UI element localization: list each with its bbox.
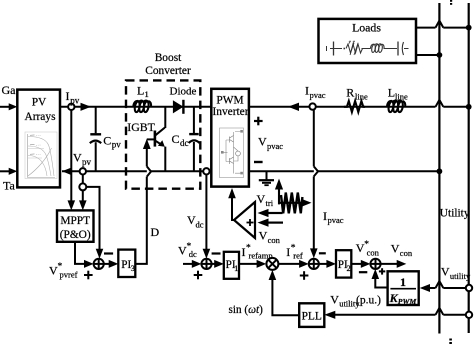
wire Vpv sense line down to MPPT <box>79 190 87 210</box>
svg-text:Utility: Utility <box>440 208 470 220</box>
wire arrow on DC bus <box>81 103 92 111</box>
node I_pv label <box>66 89 80 105</box>
wire S1 to PI3 <box>104 260 119 268</box>
svg-text:2: 2 <box>346 263 350 273</box>
svg-text:3: 3 <box>131 263 135 273</box>
svg-text:V: V <box>391 242 400 256</box>
controller PI3 block <box>118 250 135 277</box>
node Ipvac label top <box>305 84 326 100</box>
boost converter dashed box <box>126 80 200 188</box>
wire S3 to PI2 <box>319 260 336 268</box>
svg-text:ref: ref <box>293 251 303 261</box>
svg-text:Inverter: Inverter <box>212 106 248 118</box>
node S1 minus sign <box>104 252 113 254</box>
wire AC top line after hop <box>443 106 468 108</box>
node S4 plus sign <box>379 268 385 274</box>
node Vdc sensor circle on rail <box>203 168 209 174</box>
Loads inner circuit sketch <box>327 41 409 56</box>
svg-text:R: R <box>346 86 354 100</box>
svg-text:pvac: pvac <box>328 215 344 225</box>
node Vpvac label <box>258 135 283 151</box>
node Boost Converter label <box>145 52 191 77</box>
wire Loads top to bus B <box>416 21 469 28</box>
resistor Rline <box>344 101 365 112</box>
svg-text:I: I <box>66 89 70 103</box>
svg-text:PLL: PLL <box>302 310 322 322</box>
PLL block <box>299 303 324 327</box>
svg-text:1: 1 <box>400 275 406 289</box>
diode D1 <box>173 100 184 114</box>
PWM inverter block <box>211 89 249 187</box>
svg-text:V: V <box>259 229 268 243</box>
node junction dot AC top on bus B <box>466 104 472 110</box>
node S2 plus sign <box>194 271 203 280</box>
svg-text:Converter: Converter <box>145 65 191 77</box>
svg-text:dc: dc <box>189 249 197 259</box>
svg-text:line: line <box>395 91 408 101</box>
wire Vdcref input arrow <box>183 260 201 268</box>
node junction dot Loads bottom on bus A <box>437 52 443 58</box>
wire PI2 to S4 <box>351 260 370 268</box>
node S1 plus sign <box>84 271 93 280</box>
wire multiplier to S3 <box>278 260 308 268</box>
svg-text:L: L <box>137 84 144 98</box>
svg-text:PWM: PWM <box>216 95 243 107</box>
svg-text:V: V <box>330 293 339 307</box>
svg-text:V: V <box>441 265 450 279</box>
MPPT block <box>57 210 94 241</box>
gain block 1/KPWM <box>388 271 419 306</box>
wire Vcon output arrow <box>381 260 407 268</box>
wire Vtri input arrow into comparator <box>258 209 283 217</box>
svg-text:pvref: pvref <box>60 270 78 280</box>
wire Ta input arrow <box>0 168 17 175</box>
controller PI1 block <box>224 252 239 279</box>
wire sin wt into multiplier <box>269 270 300 315</box>
summing junction S1 <box>94 259 104 269</box>
svg-text:tri: tri <box>266 198 274 208</box>
svg-text:(p.u.): (p.u.) <box>356 295 381 307</box>
PWM inverter inner sketch <box>220 128 244 178</box>
node Vpv sensor circle on rail <box>80 168 86 174</box>
svg-text:V: V <box>258 135 267 149</box>
wire Ipvac sense line down <box>310 110 318 259</box>
svg-text:pv: pv <box>112 140 122 150</box>
svg-text:pvac: pvac <box>310 90 326 100</box>
node L1 label <box>137 84 149 99</box>
svg-text:line: line <box>355 92 368 102</box>
wire Vcon input arrow into comparator <box>258 219 284 227</box>
wire Ga input arrow <box>0 103 17 110</box>
Loads block <box>319 19 417 63</box>
svg-text:C: C <box>172 132 180 146</box>
node S4 minus sign <box>359 271 367 273</box>
node Ipvac sensor circle <box>309 103 315 109</box>
svg-text:Ga: Ga <box>2 83 17 97</box>
node Vpv lower sensor circle <box>79 183 86 190</box>
svg-text:IGBT: IGBT <box>127 120 155 134</box>
svg-text:I: I <box>323 209 327 223</box>
node Vconref label <box>356 240 380 258</box>
svg-text:L: L <box>388 85 395 99</box>
svg-text:dc: dc <box>196 219 204 229</box>
inductor L1 <box>133 101 151 113</box>
wire D duty cycle from PI3 to IGBT gate <box>135 139 154 264</box>
svg-text:MPPT: MPPT <box>60 215 90 227</box>
transistor IGBT <box>155 107 165 172</box>
wire S2 to PI1 <box>212 260 224 268</box>
node Vdcref label <box>178 242 197 259</box>
node Vdc label <box>187 213 204 229</box>
wire utility bus B <box>468 3 470 333</box>
svg-text:con: con <box>400 248 413 258</box>
wire Vpv feedback to summing junction <box>86 187 103 259</box>
wire Vutility pu into PLL <box>324 308 466 319</box>
node Vcon label comparator <box>259 229 281 245</box>
node Vcon label output <box>391 242 413 258</box>
wire comparator output to PWM inverter <box>228 188 236 220</box>
summing junction S3 <box>309 259 319 269</box>
wire arrow into PV bottom <box>62 168 72 176</box>
node Vutility pu sensor circle on bus B <box>466 312 472 318</box>
svg-text:Arrays: Arrays <box>25 111 57 123</box>
node Ipvac label mid <box>323 209 344 225</box>
svg-text:Diode: Diode <box>170 86 197 98</box>
wire Vdc sense down to summing junction S2 <box>203 175 211 259</box>
node Vpv label <box>73 150 92 166</box>
svg-text:1: 1 <box>234 263 238 273</box>
wire utility bus A <box>438 3 440 334</box>
node Cdc label <box>172 132 189 148</box>
svg-text:(P&O): (P&O) <box>60 229 91 241</box>
node Vpvref label <box>49 262 78 280</box>
svg-text:Boost: Boost <box>155 52 182 64</box>
node S3 minus sign <box>319 252 326 254</box>
node plus sign Vpvac <box>254 117 263 126</box>
svg-text:pvac: pvac <box>267 141 283 151</box>
svg-text:V: V <box>73 150 82 164</box>
node junction dot Loads top on bus B <box>466 25 472 31</box>
svg-text:sin (ωt): sin (ωt) <box>229 304 264 316</box>
node Lline label <box>388 85 408 101</box>
svg-text:D: D <box>151 225 160 239</box>
wire PI1 to multiplier <box>239 260 266 268</box>
wire KPWM output up into S4 <box>372 269 388 288</box>
wire link between sensor circles <box>82 175 84 184</box>
node Rline label <box>346 86 368 102</box>
wire DC top bus from PV to PWM inverter <box>60 106 211 108</box>
multiplier M1 <box>266 258 278 270</box>
node junction dot AC bottom on bus A <box>437 168 443 174</box>
node continuation dots bottom <box>449 339 452 345</box>
capacitor Cdc <box>189 107 200 172</box>
svg-text:pv: pv <box>70 95 80 105</box>
node Iref label <box>286 244 303 261</box>
svg-text:V: V <box>257 192 266 206</box>
wire Loads bottom to bus A <box>416 54 439 56</box>
svg-text:pv: pv <box>82 157 92 167</box>
node Vtri label <box>257 192 274 208</box>
svg-text:Loads: Loads <box>352 20 381 34</box>
PV array I-V curve inset <box>25 132 57 179</box>
svg-text:con: con <box>367 247 380 257</box>
svg-text:I: I <box>305 84 309 98</box>
node Vutility pu label <box>330 293 381 309</box>
node S2 minus sign <box>212 252 221 254</box>
svg-text:I: I <box>286 245 290 259</box>
inductor Lline <box>387 101 405 113</box>
svg-text:PV: PV <box>32 96 47 108</box>
waveform Vtri icon <box>275 179 312 214</box>
wire AC top line from inverter to utility bus <box>249 106 436 108</box>
node minus sign Vpvac <box>254 161 263 163</box>
comparator U1 <box>234 202 255 238</box>
node Cpv label <box>103 134 121 150</box>
wire hop over bus A <box>436 100 444 107</box>
svg-text:Ta: Ta <box>3 179 15 193</box>
svg-text:C: C <box>103 134 111 148</box>
svg-text:1: 1 <box>145 89 149 99</box>
wire arrow on AC top line <box>288 103 299 111</box>
node continuation dots top <box>450 0 452 5</box>
summing junction S2 <box>201 259 211 269</box>
wire Ipv sense line down to MPPT <box>68 110 76 210</box>
wire DC bottom rail <box>62 170 211 172</box>
svg-text:con: con <box>268 235 281 245</box>
capacitor Cpv <box>90 107 101 172</box>
wire Vutility into KPWM <box>420 281 466 292</box>
svg-text:dc: dc <box>180 138 189 148</box>
node Vutility label <box>441 265 471 281</box>
ground symbol <box>259 171 274 185</box>
node Irefamp label <box>242 244 273 261</box>
node I_pv current sensor circle <box>68 104 74 110</box>
node Vutility sensor circle on bus B <box>466 285 472 291</box>
summing junction S4 <box>370 259 380 269</box>
svg-text:I: I <box>242 245 246 259</box>
PV array block <box>17 90 60 188</box>
wire AC bottom line from inverter to utility bus <box>249 170 440 172</box>
node S3 plus sign <box>300 271 309 280</box>
controller PI2 block <box>336 250 351 277</box>
wire MPPT output to summing junction <box>75 242 94 268</box>
